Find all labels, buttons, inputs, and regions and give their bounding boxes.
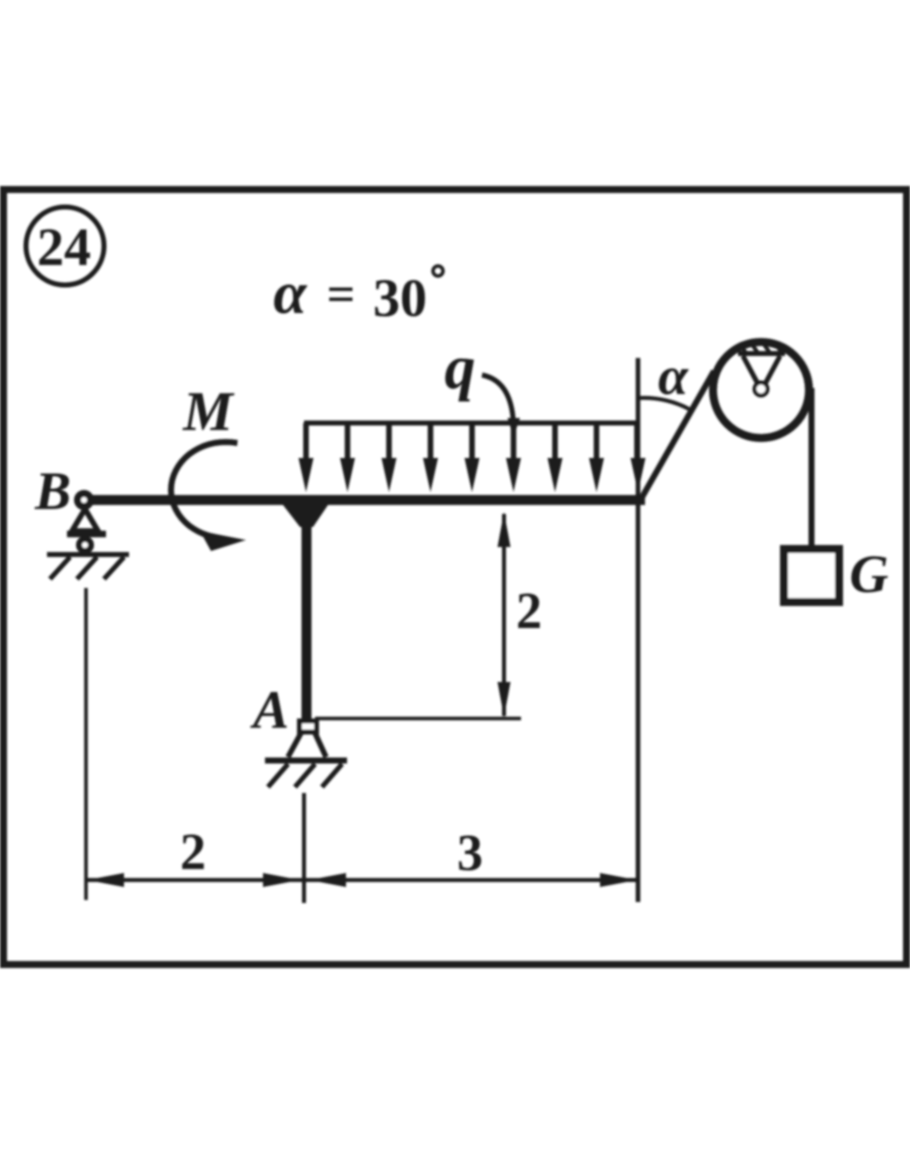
extension line below A <box>302 793 306 903</box>
svg-text:G: G <box>850 544 889 604</box>
right extension line <box>636 358 641 902</box>
svg-text:B: B <box>34 461 71 521</box>
q pointer curve <box>482 375 514 425</box>
distributed load q top line <box>304 421 638 426</box>
pulley mount bracket <box>738 351 785 356</box>
svg-text:α: α <box>658 346 689 406</box>
svg-text:3: 3 <box>457 825 483 882</box>
svg-text:30: 30 <box>373 268 427 328</box>
bottom dimension line <box>87 878 637 882</box>
svg-text:α: α <box>273 260 307 326</box>
dimension 2 vertical line <box>502 514 506 716</box>
pulley wheel <box>713 342 809 438</box>
svg-text:A: A <box>250 680 289 740</box>
weight G <box>784 549 839 602</box>
beam <box>88 495 645 505</box>
svg-text:2: 2 <box>516 583 542 640</box>
pulley axle <box>755 383 768 396</box>
pin circle at B <box>78 494 91 507</box>
svg-text:M: M <box>182 381 235 443</box>
rope from beam end to pulley <box>641 371 714 499</box>
roller support at B <box>72 509 98 531</box>
rope from pulley to weight <box>809 388 815 548</box>
svg-text:q: q <box>445 334 476 402</box>
distributed load arrows <box>306 423 637 468</box>
pin support at A <box>300 721 317 732</box>
svg-text:=: = <box>327 266 356 322</box>
problem number circle 24 <box>26 207 104 285</box>
border frame <box>4 190 907 965</box>
svg-text:2: 2 <box>180 824 206 881</box>
junction gusset at top of column <box>283 505 328 527</box>
svg-text:24: 24 <box>37 217 91 277</box>
angle alpha arc <box>640 398 689 409</box>
moment M arc <box>171 442 237 537</box>
extension line below B <box>84 588 88 900</box>
datum line at A level <box>315 717 521 721</box>
column member A <box>302 505 312 722</box>
